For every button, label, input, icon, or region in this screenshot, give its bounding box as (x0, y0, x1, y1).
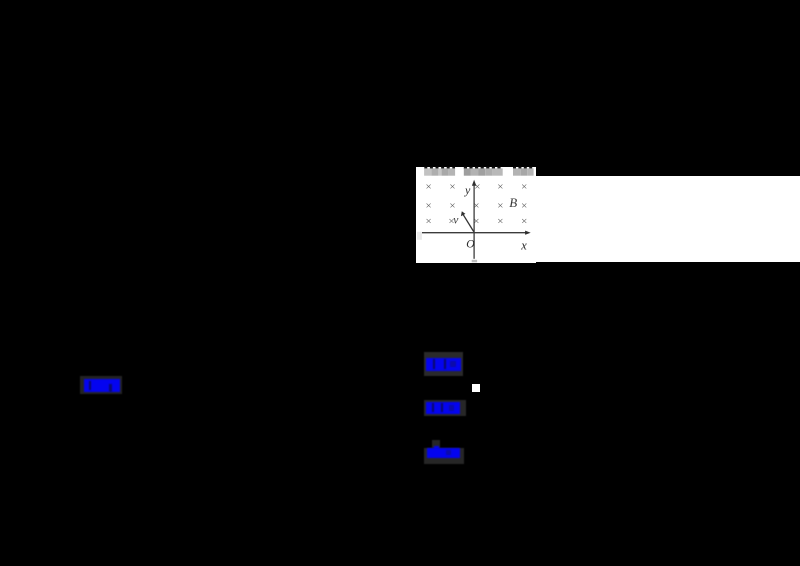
white content band (535, 176, 800, 263)
svg-text:×: × (521, 200, 527, 212)
clipped text dashes top edge group 3 (513, 167, 534, 169)
y-axis bottom stub at box edge (472, 260, 477, 263)
blurred gray caption band group 3 (513, 168, 534, 175)
blurred gray caption band group 2 (464, 168, 503, 175)
svg-text:×: × (449, 200, 455, 212)
svg-text:x: x (520, 239, 527, 253)
right link 1 blue text blob (426, 358, 461, 372)
svg-text:×: × (449, 181, 455, 193)
velocity vector v (463, 215, 473, 232)
svg-text:×: × (425, 200, 431, 212)
right link 3 top notch (432, 440, 440, 448)
right link 3 hover box (424, 448, 464, 464)
y-axis arrowhead (472, 180, 476, 186)
svg-text:×: × (425, 216, 431, 228)
figure image box (416, 167, 536, 263)
svg-text:y: y (464, 183, 471, 197)
dark glyph marks inside right link 2 (432, 403, 435, 412)
blurred gray caption band group 1 (424, 168, 455, 175)
velocity vector arrowhead (461, 211, 466, 216)
white list bullet square (472, 384, 480, 392)
right link 3 blue nub (434, 446, 439, 449)
dark glyph marks inside right link 3 (446, 450, 451, 455)
svg-text:×: × (521, 181, 527, 193)
left answer link blue text blob (84, 379, 121, 392)
magnetic field cross symbols grid (5 cols x 3 rows) (425, 181, 527, 228)
left answer link hover box (80, 376, 122, 394)
x-axis arrowhead (525, 231, 531, 235)
y-axis (473, 183, 475, 259)
right link 1 hover box (424, 352, 463, 376)
svg-text:×: × (497, 216, 503, 228)
svg-text:O: O (466, 238, 475, 250)
right link 2 blue text blob (426, 402, 460, 415)
x-axis lighter left stub (417, 232, 422, 240)
right link 2 hover box (424, 400, 466, 416)
svg-text:B: B (509, 195, 517, 210)
svg-text:×: × (521, 216, 527, 228)
svg-text:v: v (453, 215, 459, 227)
dark glyph marks inside right link 1 (433, 359, 436, 369)
svg-text:×: × (497, 200, 503, 212)
clipped text dashes top edge group 2 (464, 167, 503, 169)
x-axis (422, 232, 528, 234)
clipped text dashes top edge group 1 (424, 167, 455, 169)
svg-text:×: × (497, 181, 503, 193)
svg-text:×: × (425, 181, 431, 193)
dark glyph marks inside left blue blob (89, 381, 92, 390)
right link 3 blue text blob (427, 448, 461, 458)
